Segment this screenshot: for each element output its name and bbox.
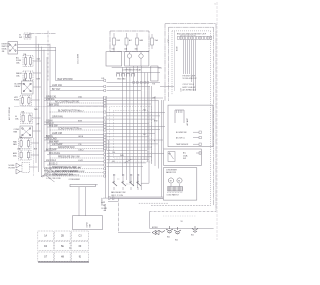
wire E20 [107, 155, 153, 157]
stub F5 [33, 117, 41, 119]
svg-text:C37: C37 [168, 39, 170, 42]
wire E15 [107, 139, 164, 141]
svg-text:P/B GR/Y L/B P: P/B GR/Y L/B P [183, 75, 196, 77]
wire W21 W/G [47, 154, 104, 156]
wire ACC [18, 50, 57, 52]
wire E3 [107, 90, 142, 92]
ground G3 [174, 230, 181, 232]
pin P16 [104, 139, 106, 141]
svg-text:41: 41 [70, 247, 72, 249]
wire W27 REFRIGERANT [44, 175, 104, 177]
dashed line bottom [151, 205, 211, 207]
pin P24 [104, 164, 106, 166]
junction block inner outline [114, 110, 149, 158]
wire W11 Y/G [44, 124, 104, 126]
svg-text:C41: C41 [101, 78, 104, 80]
svg-text:B/W LG/R GR/B L/W P/B GR/Y L/B: B/W LG/R GR/B L/W P/B GR/Y L/B P [177, 33, 207, 35]
wire E1 [107, 82, 161, 84]
fuse F6 [19, 139, 32, 149]
svg-text:A/C SW ILL: A/C SW ILL [176, 136, 185, 139]
svg-text:B G31-2: B G31-2 [49, 163, 58, 165]
svg-text:B/W P LG/B GR: B/W P LG/B GR [183, 87, 197, 89]
svg-text:PRESSURE SW Y/W: PRESSURE SW Y/W [58, 156, 80, 158]
relay box outline dash-dot [110, 31, 149, 52]
svg-text:GR/B: GR/B [78, 136, 84, 138]
svg-text:C C41 C38 COND: C C41 C38 COND [46, 178, 61, 180]
fuse F4 [20, 96, 32, 106]
pin P15 [104, 136, 106, 138]
ECM pin row [178, 36, 180, 39]
fuse F7 [19, 150, 32, 160]
relay box lower [125, 52, 149, 66]
wire E10 [107, 122, 150, 124]
svg-text:15A: 15A [78, 95, 82, 98]
svg-text:1: 1 [215, 4, 216, 6]
svg-text:BLW MTR B/W: BLW MTR B/W [58, 79, 74, 81]
wire E4 [107, 97, 164, 99]
wire V10 [121, 67, 123, 176]
junction block J/B outline [110, 106, 152, 162]
svg-text:COMPRESSOR RELAY: COMPRESSOR RELAY [122, 68, 142, 71]
svg-text:C38-2: C38-2 [78, 149, 85, 151]
pin P12 [104, 126, 106, 128]
wire W4 GR/B [44, 97, 104, 99]
wire V15 [140, 66, 142, 190]
pin P26 [104, 171, 106, 173]
wire E12 [107, 129, 161, 131]
bus wire V8 top [55, 48, 57, 81]
wire V14 [136, 66, 138, 188]
svg-text:B/W B/Y LG/B GR/R V/W L/R W/G: B/W B/Y LG/B GR/R V/W L/R W/G LG [44, 175, 80, 177]
pin P20 [104, 150, 106, 152]
ECM wire 3 [187, 40, 189, 75]
wire W24 B [47, 164, 104, 166]
radiator fan motor box [73, 216, 103, 230]
stub F4 [32, 99, 40, 101]
connector C41 boundary [103, 96, 105, 150]
wire V18 [150, 86, 152, 164]
svg-text:A/C SYSTEM: A/C SYSTEM [8, 107, 11, 120]
svg-text:E42: E42 [175, 240, 178, 242]
pin P25 [104, 168, 106, 170]
svg-text:5V SIG GND 12V: 5V SIG GND 12V [183, 78, 198, 80]
svg-text:M: M [178, 181, 180, 183]
arrow marker [41, 175, 44, 177]
svg-text:RADIATOR FAN: RADIATOR FAN [58, 146, 75, 149]
condenser fan box [163, 168, 196, 200]
svg-text:B/W: B/W [37, 79, 41, 81]
wire IG2 [18, 47, 57, 49]
svg-text:CONDENSER: CONDENSER [69, 179, 81, 181]
long bottom wire [103, 197, 163, 199]
svg-text:GR/R FAN: GR/R FAN [52, 115, 63, 118]
wire E22 [107, 162, 147, 164]
wire E14 [107, 136, 150, 138]
wire stub [108, 201, 118, 203]
wire E17 [107, 146, 153, 148]
wire W19 RADIATOR [50, 148, 104, 150]
svg-text:COND FAN RAD FAN SUB HARNESS B: COND FAN RAD FAN SUB HARNESS B/W [44, 170, 84, 173]
svg-text:M: M [170, 181, 172, 183]
wire W10 Y/B [44, 121, 104, 123]
svg-text:A/C IN FAN OUT: A/C IN FAN OUT [183, 89, 197, 92]
wire V19 [154, 96, 156, 166]
ground G4 [192, 229, 198, 231]
svg-text:FAN: FAN [13, 143, 17, 146]
wire E2 [107, 86, 151, 88]
wire W14 LG/B [50, 134, 104, 136]
wire W17 V/W [47, 142, 104, 144]
diagonal wire d2 [50, 169, 58, 176]
svg-text:BLOWER SW: BLOWER SW [176, 132, 187, 134]
svg-text:B/G EVAP: B/G EVAP [46, 148, 57, 151]
svg-text:BLOWER MOTOR HI: BLOWER MOTOR HI [58, 110, 80, 112]
wire IG1 [18, 44, 51, 46]
ground G2 [166, 229, 173, 231]
wire E9 [107, 118, 156, 120]
page edge line [216, 2, 218, 240]
diagonal wire d3 [124, 159, 132, 163]
fuse F5 [21, 113, 33, 124]
pin P11 [104, 123, 106, 125]
ECM frame inner [172, 30, 211, 32]
pin P27 [104, 175, 106, 177]
fan motor M2 [177, 178, 182, 183]
wire ignition to bus dash-dot [29, 33, 56, 35]
svg-text:L/W G/W B/W LG/R GR/B Y/G W/B: L/W G/W B/W LG/R GR/B Y/G W/B GR [44, 167, 81, 169]
pin P3 [104, 89, 106, 91]
stub R1 [33, 86, 41, 88]
svg-text:OFF 1 2 3 ON: OFF 1 2 3 ON [111, 195, 124, 197]
wire E11 [107, 126, 166, 128]
relay coil L2 [139, 54, 143, 58]
wire E16 [107, 143, 159, 145]
svg-text:B/W: B/W [154, 121, 158, 123]
wire E19 [107, 152, 164, 154]
svg-text:COND FAN RLY: COND FAN RLY [167, 194, 180, 197]
pin P8 [104, 111, 106, 113]
svg-text:L/W: L/W [36, 124, 39, 126]
svg-text:E41: E41 [167, 237, 170, 239]
wire W9 GR/R [50, 117, 104, 119]
pin P6 [104, 102, 106, 104]
dash-dot line bottom2 [150, 211, 217, 213]
svg-text:C38: C38 [102, 205, 105, 207]
svg-text:FAN MOTOR: FAN MOTOR [166, 171, 177, 174]
fan wires in [110, 196, 163, 198]
wire W13 COND [50, 129, 104, 131]
svg-text:SW: SW [183, 158, 186, 160]
diode cluster D1 [16, 163, 20, 168]
fan resistor [168, 187, 183, 192]
svg-text:FAN SW A/C SW: FAN SW A/C SW [111, 191, 126, 194]
relay R1 [22, 81, 34, 94]
bundle pin ticks [133, 82, 135, 84]
fuse F11 right [151, 38, 154, 45]
wire W2 LG/R [50, 86, 104, 88]
pressure switch symbol [168, 152, 175, 162]
wire W1 BLW [56, 80, 105, 82]
blower box [151, 66, 158, 81]
diagonal wire d1 [46, 175, 55, 182]
wire V12 [129, 67, 131, 183]
svg-text:B/Y RLY: B/Y RLY [52, 89, 61, 91]
wire V20 [158, 100, 160, 169]
ECM wire 2 [185, 40, 187, 75]
fuse F2 [23, 56, 33, 67]
wire E5 [107, 100, 159, 102]
fuse F3 [23, 71, 33, 81]
ECM frame mid [169, 26, 214, 28]
svg-text:ECM: ECM [177, 46, 179, 51]
table bottom shade [38, 261, 89, 263]
wire E23 [107, 166, 144, 168]
svg-text:2B: 2B [61, 236, 64, 238]
bus wire V5 [46, 57, 48, 151]
pin P23 [104, 160, 106, 162]
pin P19 [104, 147, 106, 149]
switch SW4 [130, 177, 132, 182]
svg-text:W/B SW: W/B SW [49, 125, 58, 127]
wire to AC box [148, 86, 150, 183]
controller box [168, 105, 213, 147]
wire W25 THERMISTOR [44, 168, 104, 170]
AC box pin [196, 152, 201, 154]
pin P2 [104, 85, 106, 87]
wire W3 B/Y [50, 90, 104, 92]
relay box left [106, 52, 122, 66]
stub F3 [33, 72, 41, 74]
fuse F8 [113, 38, 116, 45]
bus wire V7 top [47, 31, 49, 81]
wire W16 GR [44, 139, 104, 141]
svg-text:FAN: FAN [14, 131, 18, 134]
ECM wire 4 [189, 40, 191, 75]
condenser leg 1 [78, 187, 80, 216]
wire W26 EVAP [47, 171, 104, 173]
ECM wire left entry [160, 85, 174, 87]
dash-dot boundary vertical [33, 138, 35, 176]
relay R2 [20, 126, 33, 138]
stub F7 [31, 154, 39, 156]
switch SW5 [137, 177, 139, 182]
stub F6 [31, 142, 39, 144]
relay coil L1 [127, 54, 131, 58]
wire V16 [144, 73, 146, 161]
svg-text:E21: E21 [191, 235, 194, 237]
wire W5 L/W [44, 100, 104, 102]
wire W23 LG [44, 161, 104, 163]
svg-text:FILTER: FILTER [9, 168, 16, 170]
svg-text:GND GND: GND GND [117, 79, 126, 81]
wire top GND [116, 72, 160, 74]
fan motor M1 [168, 178, 173, 183]
svg-text:B G31: B G31 [102, 208, 107, 210]
pin P21 [104, 153, 106, 155]
svg-text:L/R TEMP: L/R TEMP [52, 144, 63, 146]
wire E6 [107, 103, 152, 105]
bus wire V6 [49, 44, 51, 176]
wire V21 [160, 100, 162, 197]
wire V17 [147, 73, 149, 163]
svg-text:LG C41-4: LG C41-4 [46, 160, 57, 162]
wire W7 B/W [47, 105, 104, 107]
AC pressure box [164, 149, 202, 166]
fuse F9 [125, 38, 128, 45]
svg-text:B/W: B/W [102, 202, 106, 204]
wire W18 L/R [50, 145, 104, 147]
ECM wire 7 [195, 40, 197, 92]
stub R2 [33, 130, 41, 132]
wire W12 W/B [47, 126, 104, 128]
fuse F10 [136, 38, 139, 45]
pin P17 [104, 142, 106, 144]
switch SW2 [113, 177, 115, 182]
svg-text:FUSE: FUSE [14, 100, 20, 102]
wire to ground G1 [117, 198, 119, 232]
svg-text:RELAY: RELAY [15, 85, 22, 88]
wire E18 [107, 149, 148, 151]
svg-text:W/G DUAL: W/G DUAL [49, 152, 61, 155]
svg-text:A/C AMP: A/C AMP [186, 117, 189, 125]
connector GND row [117, 74, 120, 77]
wire W22 PRESSURE [50, 157, 104, 159]
svg-text:1A: 1A [44, 235, 47, 238]
frame bottom corner [149, 212, 151, 229]
bus wire V3 [41, 47, 43, 176]
svg-text:L/W: L/W [152, 98, 155, 100]
ECM wire 1 [183, 40, 185, 75]
pin P9 [104, 117, 106, 119]
switch SW3 [122, 177, 124, 182]
svg-text:COND: COND [87, 222, 89, 228]
svg-text:GR COND: GR COND [46, 138, 57, 140]
pin P22 [104, 157, 106, 159]
condenser leg 2 [85, 187, 87, 216]
ECM frame outer [165, 23, 216, 25]
ECM inner border [174, 31, 176, 91]
stub D1 [30, 166, 38, 168]
svg-text:C37-27 C37-4: C37-27 C37-4 [183, 84, 194, 86]
wire E21 [107, 158, 150, 160]
ECM wire 5 [191, 40, 193, 83]
dashed stub [139, 202, 168, 204]
svg-text:C37: C37 [181, 88, 183, 91]
bottom bus wire [112, 66, 161, 68]
wire V22 [162, 100, 164, 149]
condenser bar [70, 184, 95, 186]
bus wire V1 [35, 36, 37, 163]
svg-text:G31-5 B/W: G31-5 B/W [78, 54, 80, 64]
wire V9 [107, 140, 109, 198]
wire W8 BLOWER [50, 111, 104, 113]
wire W20 B/G [44, 150, 104, 152]
svg-text:A/C CONTROLLER SIG: A/C CONTROLLER SIG [55, 100, 80, 103]
svg-text:9J: 9J [79, 257, 81, 259]
section divider dash-dot [14, 106, 108, 108]
wire E8 [107, 115, 161, 117]
wire V8 [104, 150, 106, 198]
svg-text:L/W: L/W [78, 128, 82, 130]
wire V13 [133, 66, 135, 186]
pin P13 [104, 129, 106, 131]
bus wire V4 [43, 50, 45, 168]
pin P7 [104, 105, 106, 107]
fuse F1 80A [24, 33, 31, 39]
wire E13 [107, 133, 156, 135]
svg-text:B/W: B/W [78, 120, 82, 122]
svg-text:5E: 5E [61, 246, 64, 248]
faint dashed line [163, 215, 197, 217]
pin P1 [104, 79, 106, 81]
pin P5 [104, 99, 106, 101]
svg-text:LG/R: LG/R [78, 160, 83, 162]
svg-text:B/W GND: B/W GND [49, 104, 59, 106]
svg-text:TEMP SENSOR: TEMP SENSOR [176, 144, 189, 146]
wire V11 [125, 67, 127, 180]
ECM wire 6 [193, 40, 195, 92]
svg-text:L/W SIG: L/W SIG [46, 99, 55, 101]
svg-text:DUAL: DUAL [183, 154, 188, 157]
controller component [175, 110, 184, 123]
wire W6 A/C [47, 102, 104, 104]
pin P14 [104, 133, 106, 135]
junction dots [50, 86, 51, 87]
svg-text:LG/B C38: LG/B C38 [52, 133, 63, 135]
svg-text:COND FAN MOTOR: COND FAN MOTOR [58, 127, 79, 130]
pin P4 [104, 97, 106, 99]
svg-text:LG/R 10A: LG/R 10A [52, 84, 62, 87]
svg-text:C41-7: C41-7 [78, 110, 85, 112]
pin P10 [104, 121, 106, 123]
wire W15 B/R [44, 137, 104, 139]
pin P18 [104, 144, 106, 146]
connector face table [38, 231, 54, 240]
wire E7 [107, 112, 166, 114]
stub F2 [33, 60, 41, 62]
svg-text:SW: SW [19, 37, 22, 39]
ignition switch SW1 [8, 42, 18, 55]
bus wire V2 [38, 44, 40, 172]
